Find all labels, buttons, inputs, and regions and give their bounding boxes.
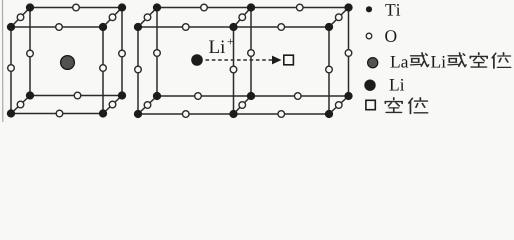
legend O symbol [366, 33, 372, 39]
right cells Ti corner atoms [134, 3, 353, 118]
legend Ti text [385, 4, 400, 16]
left cell O edge atoms [8, 4, 126, 117]
legend O text [385, 30, 396, 42]
page scan edge artifact [2, 0, 4, 122]
right cells O edge atoms [135, 4, 352, 117]
legend La/Li/vacancy symbol [368, 58, 378, 68]
right double cell edges [138, 8, 349, 115]
legend La or Li or vacancy text [391, 56, 409, 68]
legend vacancy symbol [366, 100, 375, 109]
left cell Ti corner atoms [7, 3, 126, 117]
legend vacancy text [385, 98, 427, 114]
left cell La/Li/vacancy center atom [61, 56, 75, 70]
Li atom in right cell [191, 54, 203, 66]
legend Li symbol [364, 80, 375, 91]
legend Ti symbol [366, 6, 372, 12]
left unit cell edges [11, 8, 122, 114]
Li+ label [209, 39, 233, 53]
vacancy square in right cell [284, 55, 294, 65]
legend Li text [390, 79, 405, 91]
migration dashed arrow [206, 56, 282, 65]
